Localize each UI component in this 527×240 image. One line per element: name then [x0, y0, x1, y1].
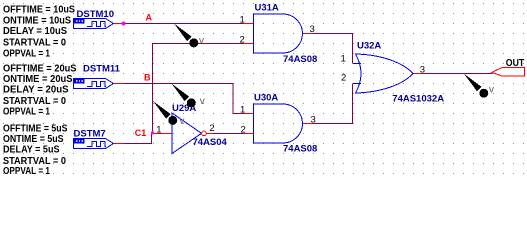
- pin 2 stub of U31A: [244, 43, 254, 45]
- svg-text:STARTVAL = 0: STARTVAL = 0: [3, 96, 66, 107]
- svg-text:U31A: U31A: [255, 3, 279, 14]
- svg-text:74AS1032A: 74AS1032A: [392, 93, 444, 104]
- OR gate U32A body: [356, 54, 414, 93]
- svg-text:C1: C1: [135, 128, 147, 138]
- svg-text:1: 1: [240, 14, 245, 25]
- wire net C1 from DSTM7 to junction: [124, 134, 152, 144]
- svg-text:OPPVAL = 1: OPPVAL = 1: [3, 107, 50, 118]
- pin 1 input stub of U29A: [153, 133, 172, 135]
- inverter U29A body: [172, 113, 202, 154]
- wire from U32A output to OUT port: [424, 73, 493, 75]
- svg-text:v: v: [180, 116, 185, 127]
- svg-text:74AS08: 74AS08: [283, 144, 317, 155]
- svg-text:OPPVAL = 1: OPPVAL = 1: [3, 48, 50, 59]
- svg-text:2: 2: [341, 72, 346, 83]
- svg-text:DELAY = 10uS: DELAY = 10uS: [3, 26, 67, 37]
- svg-text:1: 1: [341, 54, 346, 65]
- svg-text:OFFTIME = 10uS: OFFTIME = 10uS: [3, 5, 75, 16]
- wire net C1 vertical branch up to U31A pin 2: [153, 44, 244, 134]
- pin 1 stub of U30A: [244, 113, 254, 115]
- svg-text:DSTM11: DSTM11: [83, 64, 121, 75]
- wire from U29A output to U30A pin 2: [214, 133, 244, 135]
- svg-text:OFFTIME = 20uS: OFFTIME = 20uS: [3, 63, 77, 74]
- pin 1 stub of U32A: [353, 63, 361, 65]
- svg-text:v: v: [200, 96, 205, 107]
- svg-text:A: A: [146, 13, 153, 23]
- pin 2 output stub of U29A: [207, 133, 214, 135]
- voltage probe on node C1 branch: [153, 101, 177, 125]
- stimulus DSTM11 symbol: [74, 79, 124, 89]
- svg-text:OFFTIME = 5uS: OFFTIME = 5uS: [3, 123, 68, 134]
- wire net B from DSTM11 to U30A pin 1: [124, 84, 244, 114]
- svg-text:DELAY = 20uS: DELAY = 20uS: [3, 85, 69, 96]
- junction dot on node A: [122, 22, 126, 26]
- svg-text:OPPVAL = 1: OPPVAL = 1: [3, 166, 50, 177]
- inverter U29A bubble: [202, 131, 207, 136]
- svg-text:3: 3: [310, 24, 315, 35]
- attribute text of DSTM11: [3, 63, 77, 117]
- svg-text:STARTVAL = 0: STARTVAL = 0: [3, 37, 66, 48]
- junction dot on node C1: [151, 131, 154, 134]
- attribute text of DSTM7: [3, 123, 68, 177]
- svg-text:OUT: OUT: [506, 58, 525, 69]
- svg-text:3: 3: [420, 64, 425, 75]
- pin 3 output stub of U30A: [303, 123, 314, 125]
- svg-text:2: 2: [241, 124, 246, 135]
- OUT port symbol: [492, 68, 525, 77]
- voltage probe on node A: [174, 24, 198, 48]
- svg-text:74AS08: 74AS08: [283, 54, 317, 65]
- svg-text:ONTIME = 10uS: ONTIME = 10uS: [3, 15, 71, 26]
- svg-text:U32A: U32A: [357, 41, 381, 52]
- pin 2 stub of U32A: [353, 83, 361, 85]
- svg-text:1: 1: [240, 104, 245, 115]
- svg-text:2: 2: [240, 34, 245, 45]
- AND gate U30A body: [254, 104, 303, 143]
- stimulus DSTM7 symbol: [74, 139, 124, 149]
- svg-text:DELAY = 5uS: DELAY = 5uS: [3, 144, 60, 155]
- attribute text of DSTM10: [3, 5, 75, 60]
- svg-text:74AS04: 74AS04: [193, 137, 228, 148]
- wire from U31A output to U32A pin 1: [314, 34, 353, 64]
- AND gate U31A body: [254, 14, 303, 53]
- wire net A from DSTM10 to U31A pin 1: [124, 23, 244, 25]
- svg-text:DSTM10: DSTM10: [77, 9, 114, 20]
- svg-text:U30A: U30A: [254, 92, 278, 103]
- svg-text:ONTIME = 20uS: ONTIME = 20uS: [3, 74, 73, 85]
- svg-text:v: v: [489, 85, 494, 96]
- voltage probe on node OUT: [464, 74, 488, 98]
- wire from U30A output to U32A pin 2: [314, 84, 353, 124]
- svg-text:2: 2: [209, 123, 214, 134]
- stimulus DSTM10 symbol: [74, 19, 124, 29]
- svg-text:DSTM7: DSTM7: [74, 128, 106, 139]
- pin 3 output stub of U31A: [303, 33, 314, 35]
- pin 2 stub of U30A: [244, 133, 254, 135]
- svg-text:1: 1: [156, 124, 161, 135]
- svg-text:3: 3: [311, 114, 316, 125]
- pin 1 stub of U31A: [244, 23, 254, 25]
- svg-text:v: v: [199, 36, 204, 47]
- pin 3 output stub of U32A: [413, 73, 424, 75]
- voltage probe on node B: [172, 84, 196, 108]
- svg-text:B: B: [144, 73, 151, 83]
